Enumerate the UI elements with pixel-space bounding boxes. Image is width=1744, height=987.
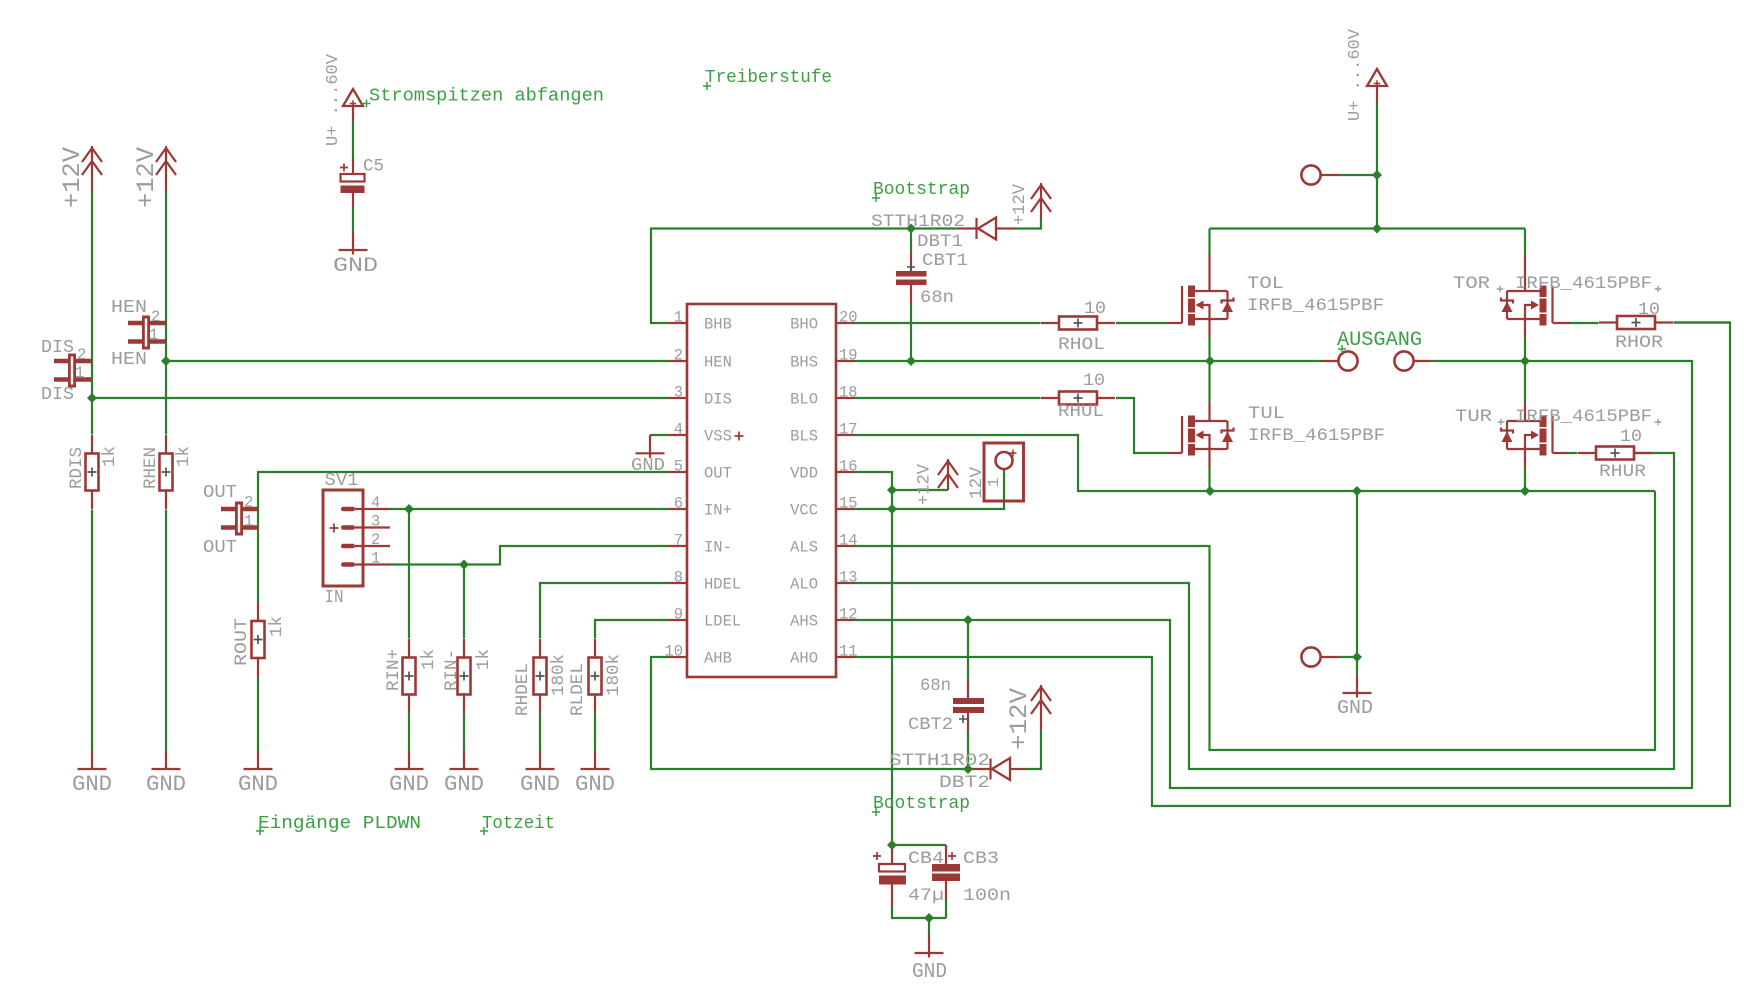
svg-text:4: 4 [371, 494, 380, 512]
svg-text:GND: GND [575, 772, 615, 797]
svg-text:1: 1 [244, 513, 253, 531]
svg-text:LDEL: LDEL [704, 613, 741, 631]
svg-text:GND: GND [912, 960, 947, 984]
svg-text:12: 12 [839, 606, 858, 624]
svg-text:68n: 68n [920, 288, 954, 308]
svg-text:ALO: ALO [790, 576, 818, 594]
svg-text:1k: 1k [419, 649, 439, 670]
svg-text:BLO: BLO [790, 391, 818, 409]
svg-text:CBT1: CBT1 [922, 251, 968, 271]
svg-text:47µ: 47µ [908, 886, 944, 906]
svg-text:13: 13 [839, 569, 858, 587]
svg-text:IRFB_4615PBF: IRFB_4615PBF [1248, 426, 1385, 446]
svg-text:16: 16 [839, 458, 858, 476]
svg-text:GND: GND [444, 772, 484, 797]
svg-text:IN-: IN- [704, 539, 732, 557]
svg-text:68n: 68n [920, 676, 951, 696]
svg-text:RHDEL: RHDEL [513, 663, 533, 716]
svg-text:STTH1R02: STTH1R02 [871, 212, 965, 232]
svg-text:4: 4 [674, 421, 683, 439]
svg-text:GND: GND [520, 772, 560, 797]
svg-text:CB4: CB4 [908, 849, 944, 869]
svg-text:7: 7 [674, 532, 683, 550]
svg-text:IN+: IN+ [704, 502, 732, 520]
svg-text:HEN: HEN [111, 297, 147, 318]
svg-text:RHOL: RHOL [1058, 335, 1105, 355]
svg-text:GND: GND [1337, 697, 1373, 719]
svg-text:U+ ...60V: U+ ...60V [1346, 28, 1365, 121]
svg-text:2: 2 [371, 531, 380, 549]
svg-text:10: 10 [1084, 299, 1106, 319]
svg-text:1: 1 [75, 364, 84, 382]
svg-text:14: 14 [839, 532, 858, 550]
svg-text:17: 17 [839, 421, 858, 439]
svg-text:HDEL: HDEL [704, 576, 741, 594]
svg-text:2: 2 [674, 347, 683, 365]
svg-text:180k: 180k [549, 654, 569, 696]
svg-text:RLDEL: RLDEL [568, 663, 588, 716]
svg-text:OUT: OUT [203, 482, 237, 503]
svg-text:Treiberstufe: Treiberstufe [705, 67, 832, 88]
svg-text:RHUR: RHUR [1599, 462, 1647, 482]
svg-text:AHB: AHB [704, 650, 732, 668]
svg-text:Eingänge PLDWN: Eingänge PLDWN [258, 813, 421, 834]
svg-text:BHO: BHO [790, 316, 818, 334]
svg-text:VSS: VSS [704, 428, 732, 446]
svg-text:TUR: TUR [1455, 407, 1493, 427]
svg-text:DIS: DIS [41, 384, 74, 405]
svg-text:CBT2: CBT2 [908, 715, 953, 735]
svg-text:IRFB_4615PBF: IRFB_4615PBF [1515, 407, 1652, 427]
svg-text:3: 3 [371, 513, 380, 531]
svg-text:OUT: OUT [704, 465, 732, 483]
svg-text:IN: IN [325, 588, 344, 608]
svg-text:BHS: BHS [790, 354, 818, 372]
svg-text:6: 6 [674, 495, 683, 513]
svg-text:VCC: VCC [790, 502, 818, 520]
svg-text:DBT1: DBT1 [917, 232, 963, 252]
svg-text:18: 18 [839, 384, 858, 402]
svg-text:AHS: AHS [790, 613, 818, 631]
svg-text:DIS: DIS [41, 337, 74, 358]
svg-text:RHOR: RHOR [1615, 333, 1664, 353]
svg-text:OUT: OUT [203, 537, 237, 558]
svg-text:100n: 100n [963, 886, 1011, 906]
svg-text:5: 5 [674, 458, 683, 476]
svg-text:20: 20 [839, 309, 858, 327]
svg-text:CB3: CB3 [963, 849, 999, 869]
svg-text:+12V: +12V [1010, 184, 1030, 225]
svg-text:ALS: ALS [790, 539, 818, 557]
svg-text:IRFB_4615PBF: IRFB_4615PBF [1515, 274, 1652, 294]
svg-text:VDD: VDD [790, 465, 818, 483]
svg-text:2: 2 [151, 308, 160, 326]
svg-text:RHEN: RHEN [141, 447, 161, 489]
svg-text:9: 9 [674, 606, 683, 624]
svg-text:12V: 12V [967, 467, 987, 499]
svg-text:Totzeit: Totzeit [482, 813, 555, 834]
svg-text:10: 10 [1638, 300, 1660, 320]
svg-text:U+ ...60V: U+ ...60V [324, 53, 343, 146]
svg-text:1k: 1k [267, 616, 287, 637]
svg-text:BHB: BHB [704, 316, 732, 334]
svg-text:+12V: +12V [1005, 688, 1034, 750]
svg-text:AUSGANG: AUSGANG [1337, 329, 1422, 352]
svg-text:8: 8 [674, 569, 683, 587]
svg-text:10: 10 [1620, 427, 1642, 447]
svg-text:180k: 180k [604, 654, 624, 696]
svg-text:11: 11 [839, 643, 858, 661]
svg-text:3: 3 [674, 384, 683, 402]
svg-text:GND: GND [631, 456, 665, 476]
svg-text:GND: GND [72, 772, 112, 797]
svg-text:IRFB_4615PBF: IRFB_4615PBF [1247, 296, 1384, 316]
svg-text:TOR: TOR [1453, 274, 1491, 294]
svg-text:BLS: BLS [790, 428, 818, 446]
svg-text:+12V: +12V [915, 464, 935, 505]
svg-text:Bootstrap: Bootstrap [873, 793, 970, 814]
svg-text:ROUT: ROUT [232, 618, 252, 666]
svg-text:GND: GND [333, 255, 378, 278]
svg-text:DIS: DIS [704, 391, 732, 409]
svg-text:SV1: SV1 [325, 471, 359, 491]
svg-text:1: 1 [985, 478, 1003, 487]
svg-text:2: 2 [77, 346, 86, 364]
svg-text:GND: GND [238, 772, 278, 797]
svg-text:AHO: AHO [790, 650, 818, 668]
svg-text:2: 2 [244, 494, 253, 512]
svg-text:10: 10 [664, 643, 683, 661]
svg-text:RDIS: RDIS [67, 447, 87, 489]
svg-text:HEN: HEN [704, 354, 732, 372]
svg-text:1k: 1k [174, 446, 194, 467]
svg-text:15: 15 [839, 495, 858, 513]
svg-text:TUL: TUL [1248, 404, 1285, 424]
svg-text:HEN: HEN [111, 349, 147, 370]
svg-text:1: 1 [371, 550, 380, 568]
svg-text:1k: 1k [100, 446, 120, 467]
svg-text:TOL: TOL [1247, 274, 1284, 294]
svg-text:RHUL: RHUL [1058, 402, 1104, 422]
svg-text:GND: GND [146, 772, 186, 797]
svg-text:Bootstrap: Bootstrap [873, 179, 970, 200]
svg-text:Stromspitzen abfangen: Stromspitzen abfangen [369, 86, 604, 107]
svg-text:+12V: +12V [132, 147, 161, 208]
svg-text:DBT2: DBT2 [939, 773, 990, 793]
svg-text:STTH1R02: STTH1R02 [889, 751, 990, 771]
svg-text:1k: 1k [474, 649, 494, 670]
svg-text:+12V: +12V [58, 147, 87, 208]
svg-text:C5: C5 [363, 157, 384, 177]
svg-text:19: 19 [839, 347, 858, 365]
svg-text:GND: GND [389, 772, 429, 797]
svg-text:RIN-: RIN- [442, 649, 462, 691]
svg-text:1: 1 [674, 309, 683, 327]
svg-text:10: 10 [1083, 371, 1105, 391]
svg-text:1: 1 [149, 326, 158, 344]
svg-text:RIN+: RIN+ [384, 649, 404, 691]
